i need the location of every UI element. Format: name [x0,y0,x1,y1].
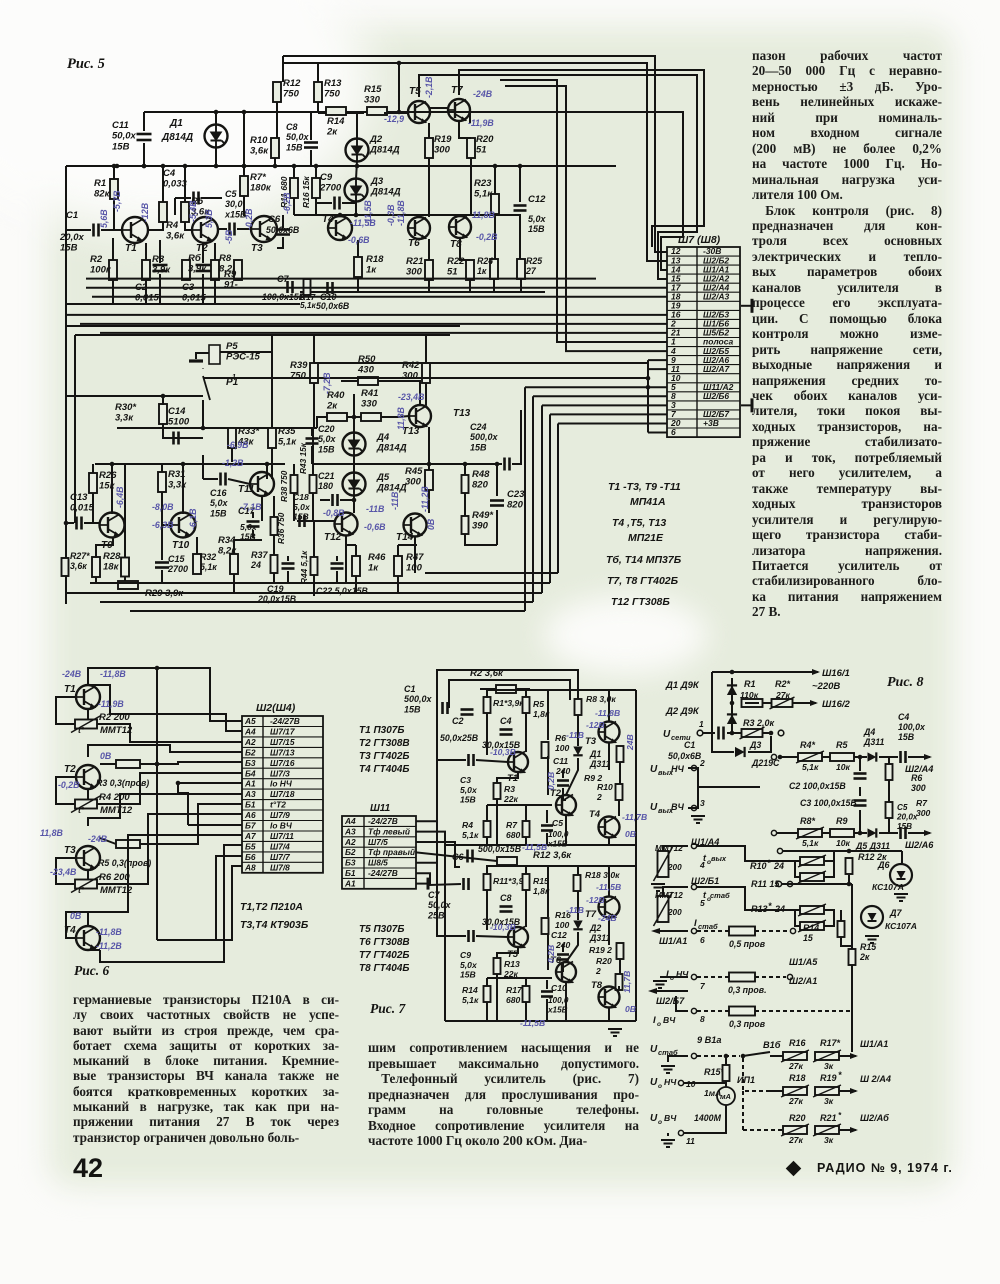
svg-text:С12: С12 [528,194,546,205]
wire to pin21 [100,332,667,334]
wire R8 top [214,243,216,260]
bottom-middle text column [368,1040,639,1149]
wire T4 down [608,838,610,845]
svg-text:Д4: Д4 [376,432,390,443]
wire Uvyh vch stub [688,787,698,808]
svg-text:ММТ12: ММТ12 [100,805,133,816]
wire R34 top [234,540,262,554]
resistor R50 [358,377,378,385]
wire bottom rail top-channel [300,291,545,293]
wire to A1 [178,782,242,784]
resistor R2 [109,260,117,280]
wire R43 bottom [312,493,314,521]
svg-text:300: 300 [405,477,422,488]
svg-text:С13: С13 [70,492,88,503]
svg-text:Ш7/17: Ш7/17 [270,726,295,736]
svg-text:3,6к: 3,6к [166,231,185,242]
svg-text:Д6: Д6 [877,860,890,870]
svg-text:R15: R15 [533,876,549,886]
svg-text:R43 15к: R43 15к [298,442,308,474]
wire R30 top [162,396,164,405]
svg-text:-0,2В: -0,2В [58,780,80,790]
svg-text:R15*: R15* [704,1067,725,1077]
svg-text:Ш2/А1: Ш2/А1 [789,976,817,986]
diode D2 fig7 [573,921,582,930]
transistor T13 [409,405,431,427]
wire R11 down [486,890,488,930]
junction R12 top [847,849,852,854]
resistor R18 [354,257,362,277]
svg-text:R48: R48 [472,469,490,480]
svg-text:С8: С8 [500,893,512,903]
wire C16 to T11 [228,479,250,484]
wire R2 left [480,688,496,690]
wire C4 right [201,197,222,199]
wire C3 bottom [202,274,204,304]
svg-text:0В: 0В [426,518,436,530]
svg-text:С24: С24 [470,422,487,432]
svg-text:R7: R7 [916,798,928,808]
svg-text:5: 5 [700,898,705,908]
wire R48 stub [464,464,466,475]
svg-text:-24/27В: -24/27В [368,816,398,826]
resistor R1 fig8 [742,699,763,707]
resistor R48 [462,475,469,493]
svg-text:R15: R15 [364,84,382,95]
wire T6 down [565,982,567,1021]
wire top rail fig7 [487,689,636,691]
wire D1 to T2 [566,758,578,795]
junction R30 top [161,394,166,399]
wire T1 top [88,668,100,685]
svg-text:Т2 ГТ308В: Т2 ГТ308В [359,738,410,749]
svg-text:Д4: Д4 [863,727,875,737]
svg-text:Д1: Д1 [169,118,183,129]
svg-text:Ш7/18: Ш7/18 [270,789,295,799]
junction rail166 x275 [273,164,278,169]
svg-text:Т1 -Т3, Т9 -Т11: Т1 -Т3, Т9 -Т11 [608,481,681,493]
svg-text:Д814Д: Д814Д [369,145,400,156]
terminal circle R8 [771,830,776,835]
wire R15 down [851,965,853,978]
svg-text:R7*: R7* [250,172,267,183]
junction R4 in [778,755,783,760]
svg-text:МП21Е: МП21Е [628,532,664,544]
svg-text:Т1: Т1 [64,684,76,695]
svg-text:5,0х: 5,0х [318,434,337,444]
zener D6 KS107A [890,864,912,886]
capacitor C22 [331,564,344,569]
wire R28 bottom [95,577,97,583]
svg-text:R9: R9 [836,816,848,826]
svg-text:Т7 ГТ402Б: Т7 ГТ402Б [359,950,409,961]
wire R50 to T13 [378,381,420,405]
wire bottom y611 [130,610,525,612]
svg-text:А8: А8 [244,862,256,872]
svg-text:50,0х: 50,0х [112,131,136,142]
stub [667,1133,669,1136]
wire switch blade [743,1052,770,1056]
wire B3 [416,863,437,936]
resistor R3 [142,260,150,280]
svg-text:А1: А1 [244,779,256,789]
svg-text:R33*: R33* [238,426,260,437]
wire R38 top [293,464,295,475]
svg-text:R2: R2 [90,254,103,265]
wire to A8 [216,866,242,940]
wire A2 [416,842,460,867]
svg-text:Д3: Д3 [370,176,384,187]
junction rail215 D3 [354,213,359,218]
resistor R3 fig6 [116,760,140,768]
junction bus R3 [155,762,160,767]
svg-text:110к: 110к [740,690,759,700]
svg-text:-23,4В: -23,4В [398,392,425,402]
svg-text:820: 820 [472,480,489,491]
svg-text:R19 2: R19 2 [589,945,612,955]
wire C6 bottom [277,237,283,248]
svg-text:Rб: Rб [188,253,202,264]
svg-text:С18: С18 [293,492,309,502]
ground MMT12 upper [651,884,665,891]
wire R15 col top [851,884,853,949]
wire D2 top [356,112,358,139]
resistor R10b fig8 [800,873,824,881]
transistor T12 [335,513,358,536]
wire C3 to T1 [476,760,508,762]
wire R2 right [793,702,816,704]
resistor R21 [425,260,433,280]
svg-text:С4: С4 [500,716,512,726]
wire D4-D5 [353,455,355,473]
meter IP1 [717,1087,735,1105]
diode D1 fig8 [727,685,737,695]
junction R7 rail112 [242,110,247,115]
resistor R20 box fig7 [616,974,623,990]
resistor R18 fig8 [783,1087,807,1095]
wire R5 left [100,838,116,844]
svg-text:R5: R5 [533,699,544,709]
wire drop to R12 col [282,56,284,82]
svg-text:5,0х: 5,0х [528,214,547,224]
wire R35 column [271,335,273,428]
transistor T6 [408,217,430,239]
wire R35 bottom [271,448,273,479]
svg-text:51: 51 [476,145,487,156]
resistor R8 fig7 [575,699,582,715]
junction rail166 x294 [292,164,297,169]
transistor T1 [122,217,148,243]
wire T1 collector to A4 [88,685,242,731]
junction x648 row10 [646,376,651,381]
svg-text:Ш2/А7: Ш2/А7 [703,364,731,374]
wire R37 bottom [273,573,275,583]
svg-text:2: 2 [596,792,602,802]
svg-text:680: 680 [506,830,521,840]
resistor R12 fig7 [497,857,517,865]
thermistor R2 MMT12 [75,720,97,729]
svg-text:Д1 Д9К: Д1 Д9К [665,680,700,691]
resistor R14 [326,107,346,115]
transistor T6 fig7 [556,962,576,983]
wire R11 to rail [293,198,295,215]
resistor R41 [361,413,381,421]
svg-text:750: 750 [290,371,307,382]
svg-text:-11В: -11В [566,905,584,915]
capacitor C1 [94,224,99,237]
svg-text:Т3: Т3 [64,845,76,856]
resistor R15b fig8 [849,949,856,965]
junction rail215 T4 [338,213,343,218]
svg-text:Ш7 (Ш8): Ш7 (Ш8) [678,234,721,246]
wire C18 left ext [297,520,307,522]
wire R42 bottom [425,383,427,405]
wire Useti to C1 [703,732,715,734]
wire R3 bottom [496,799,498,845]
wire C1 to R3 [727,732,742,734]
svg-text:R23: R23 [474,178,492,189]
terminal 8 [691,1008,696,1013]
svg-text:t°Т2: t°Т2 [270,800,286,810]
wire R15 down [525,890,527,927]
svg-text:R11*3,9: R11*3,9 [493,876,524,886]
wire C19 bottom [287,571,289,583]
svg-text:15В: 15В [897,822,912,831]
capacitor C13 [77,517,82,530]
resistor R44 [311,557,318,575]
wire T2 down [565,815,567,845]
svg-text:ВЧ: ВЧ [664,1113,677,1123]
wire R9-R10 [619,762,621,784]
wire to R13 [697,887,800,910]
wire R16 bottom [315,198,317,213]
wire to pin9 [648,359,667,361]
svg-text:1мА: 1мА [704,1088,721,1098]
resistor R43 [310,475,317,493]
svg-text:*: * [767,858,771,868]
svg-text:Ш7/9: Ш7/9 [270,810,290,820]
svg-text:15В: 15В [286,142,303,152]
wire T5-T7 [430,107,448,109]
arrow SH1/A1 left [651,928,660,934]
wire C1 in [66,229,91,231]
transistor T2 fig7 [556,795,576,816]
wire R4 top [162,166,164,202]
wire R13 par l [795,910,800,926]
wire R10 par left [795,861,800,877]
resistor R5 fig6 [116,840,140,848]
resistor R7 [240,176,248,196]
wire D5 bottom [353,495,355,513]
wire R10 par right [824,861,834,877]
wire C1 to T1 [101,229,122,231]
resistor R7 fig8 [886,802,893,818]
wire R15 col down [851,1011,853,1052]
terminal R3 right [778,730,784,736]
resistor R9 fig7 [617,746,624,762]
transistor Т1 fig6 [76,685,100,709]
resistor R13b fig8 [800,922,824,930]
wire R19 down [428,158,430,217]
capacitor C15 [155,563,169,568]
resistor R37 [271,555,278,573]
ground fig7 [608,1029,622,1036]
resistor R46 [352,556,360,576]
resistor R2 fig7 [496,685,516,693]
junction rail166 x316 [314,164,319,169]
svg-text:Т12: Т12 [324,532,342,543]
svg-text:5,3В: 5,3В [204,209,214,228]
resistor R27 [62,558,69,576]
svg-text:3,6к: 3,6к [250,146,269,157]
wire R42 top [425,335,427,363]
svg-text:9 В1а: 9 В1а [697,1035,722,1045]
wire C9 left [316,202,332,204]
svg-text:Т6 ГТ308В: Т6 ГТ308В [359,937,410,948]
junction R15a [724,1054,729,1059]
svg-text:R21: R21 [820,1113,837,1123]
svg-text:стаб: стаб [698,922,718,931]
resistor R8 [211,260,219,280]
resistor R47 [394,556,402,576]
wire y978 rail [487,977,552,979]
svg-text:15В: 15В [318,444,335,454]
svg-text:0В: 0В [70,911,82,921]
junction rail464 [265,462,270,467]
wire T7 emitter stub [469,112,471,123]
arrow SH2/A4 bottom [850,1088,858,1094]
wire R23 bottom [494,214,496,259]
svg-text:2: 2 [595,966,601,976]
resistor R12 fig8 [846,858,853,874]
wire top frame 1 [437,670,578,714]
junction D4 top [352,415,357,420]
capacitor C23 [490,501,504,506]
svg-text:I: I [694,918,697,929]
wire T2 to B2 [88,745,242,757]
junction x648 row5 [646,385,651,390]
capacitor C3 [196,265,211,271]
wire T5 emitter to R13 [497,947,518,958]
wire C22 bottom [336,571,338,583]
svg-text:Т4: Т4 [589,809,601,820]
wire B2 to R12 [416,852,497,861]
wire D3 bottom [355,201,357,215]
wire R41 right [381,416,398,418]
wire main vertical bus [100,668,157,940]
wire D1 bottom [215,147,217,166]
wire C4 left [175,197,191,199]
junction R23 [493,164,498,169]
svg-text:-7,2В: -7,2В [322,372,332,394]
wire R8-R9 [822,832,830,834]
diode D5 fig8 [868,828,877,837]
svg-text:Ш7/5: Ш7/5 [368,837,388,847]
svg-text:330: 330 [364,95,381,106]
transistor T8 fig7 [599,987,620,1008]
svg-text:ММТ12: ММТ12 [655,891,683,900]
wire switch down [202,400,204,428]
svg-text:R20: R20 [789,1113,806,1123]
wire switch top stub [202,367,204,370]
wire R4-R5 [822,756,830,758]
wire R14 top [840,910,842,921]
wire D3 right [748,736,771,752]
svg-text:15В: 15В [404,704,421,714]
wire to pin3w [542,404,667,406]
svg-text:R39: R39 [290,360,308,371]
svg-text:5,1к: 5,1к [802,838,819,848]
svg-text:КС107А: КС107А [885,921,917,931]
svg-text:R14: R14 [327,116,345,127]
junction R45 mid [427,462,432,467]
svg-text:R49*: R49* [472,510,494,521]
wire rail y396 [66,395,203,397]
wire R44 bottom [313,575,315,596]
svg-text:R13: R13 [324,78,342,89]
wire R10 to T4 [618,800,620,816]
svg-text:-11,9В: -11,9В [468,118,494,128]
thermistor MMT12 lower fig8 [658,896,669,922]
junction D1 top [730,670,735,675]
svg-text:Тф левый: Тф левый [368,826,410,836]
svg-text:-11В: -11В [566,730,584,740]
svg-text:-8,0В: -8,0В [152,502,174,512]
svg-text:С3: С3 [460,775,471,785]
wire D4 top [353,394,355,433]
svg-text:-12,9: -12,9 [384,114,404,124]
capacitor C4 fig8 [901,751,906,763]
wire C2 top [159,240,161,263]
svg-text:5100: 5100 [168,417,190,428]
capacitor C19 [282,564,295,569]
junction rail166 x357 [355,164,360,169]
wire R1 R5 top [487,690,526,698]
svg-text:200: 200 [667,908,682,917]
svg-text:Т11: Т11 [238,484,255,495]
resistor R17 fig7 [523,986,530,1002]
capacitor C12 [514,206,527,211]
terminal row6 right [790,928,795,933]
svg-text:Т6: Т6 [408,238,420,249]
wire right border fig7 [635,690,637,1021]
svg-text:МП41А: МП41А [630,496,666,508]
svg-text:Ш16/2: Ш16/2 [822,699,851,710]
wire T8 to R22 [460,238,470,260]
wire row9 [668,1056,688,1062]
svg-text:300: 300 [911,783,926,793]
resistor R4 fig8 [798,753,822,761]
resistor R36 [271,517,278,535]
svg-text:Д814Д: Д814Д [376,443,407,454]
wire R7 bottom [243,196,245,216]
svg-text:R24: R24 [477,256,493,266]
svg-text:-0,6В: -0,6В [348,235,370,245]
wire R13 bottom [317,102,319,112]
transistor Т2 fig6 [76,765,100,789]
wire left frame fig8 [712,672,734,752]
svg-text:5,1к: 5,1к [278,437,297,448]
wire R5 to B1 [140,804,242,844]
junction R12 bottom [847,882,852,887]
wire row10 to R18 [770,1090,783,1092]
svg-text:-23,4В: -23,4В [50,867,77,877]
svg-text:-0,6В: -0,6В [364,522,386,532]
svg-text:Д2: Д2 [589,923,601,933]
wire R8 top [577,690,579,699]
wire bottom y593 [66,592,542,594]
wire R15 right [384,112,407,114]
